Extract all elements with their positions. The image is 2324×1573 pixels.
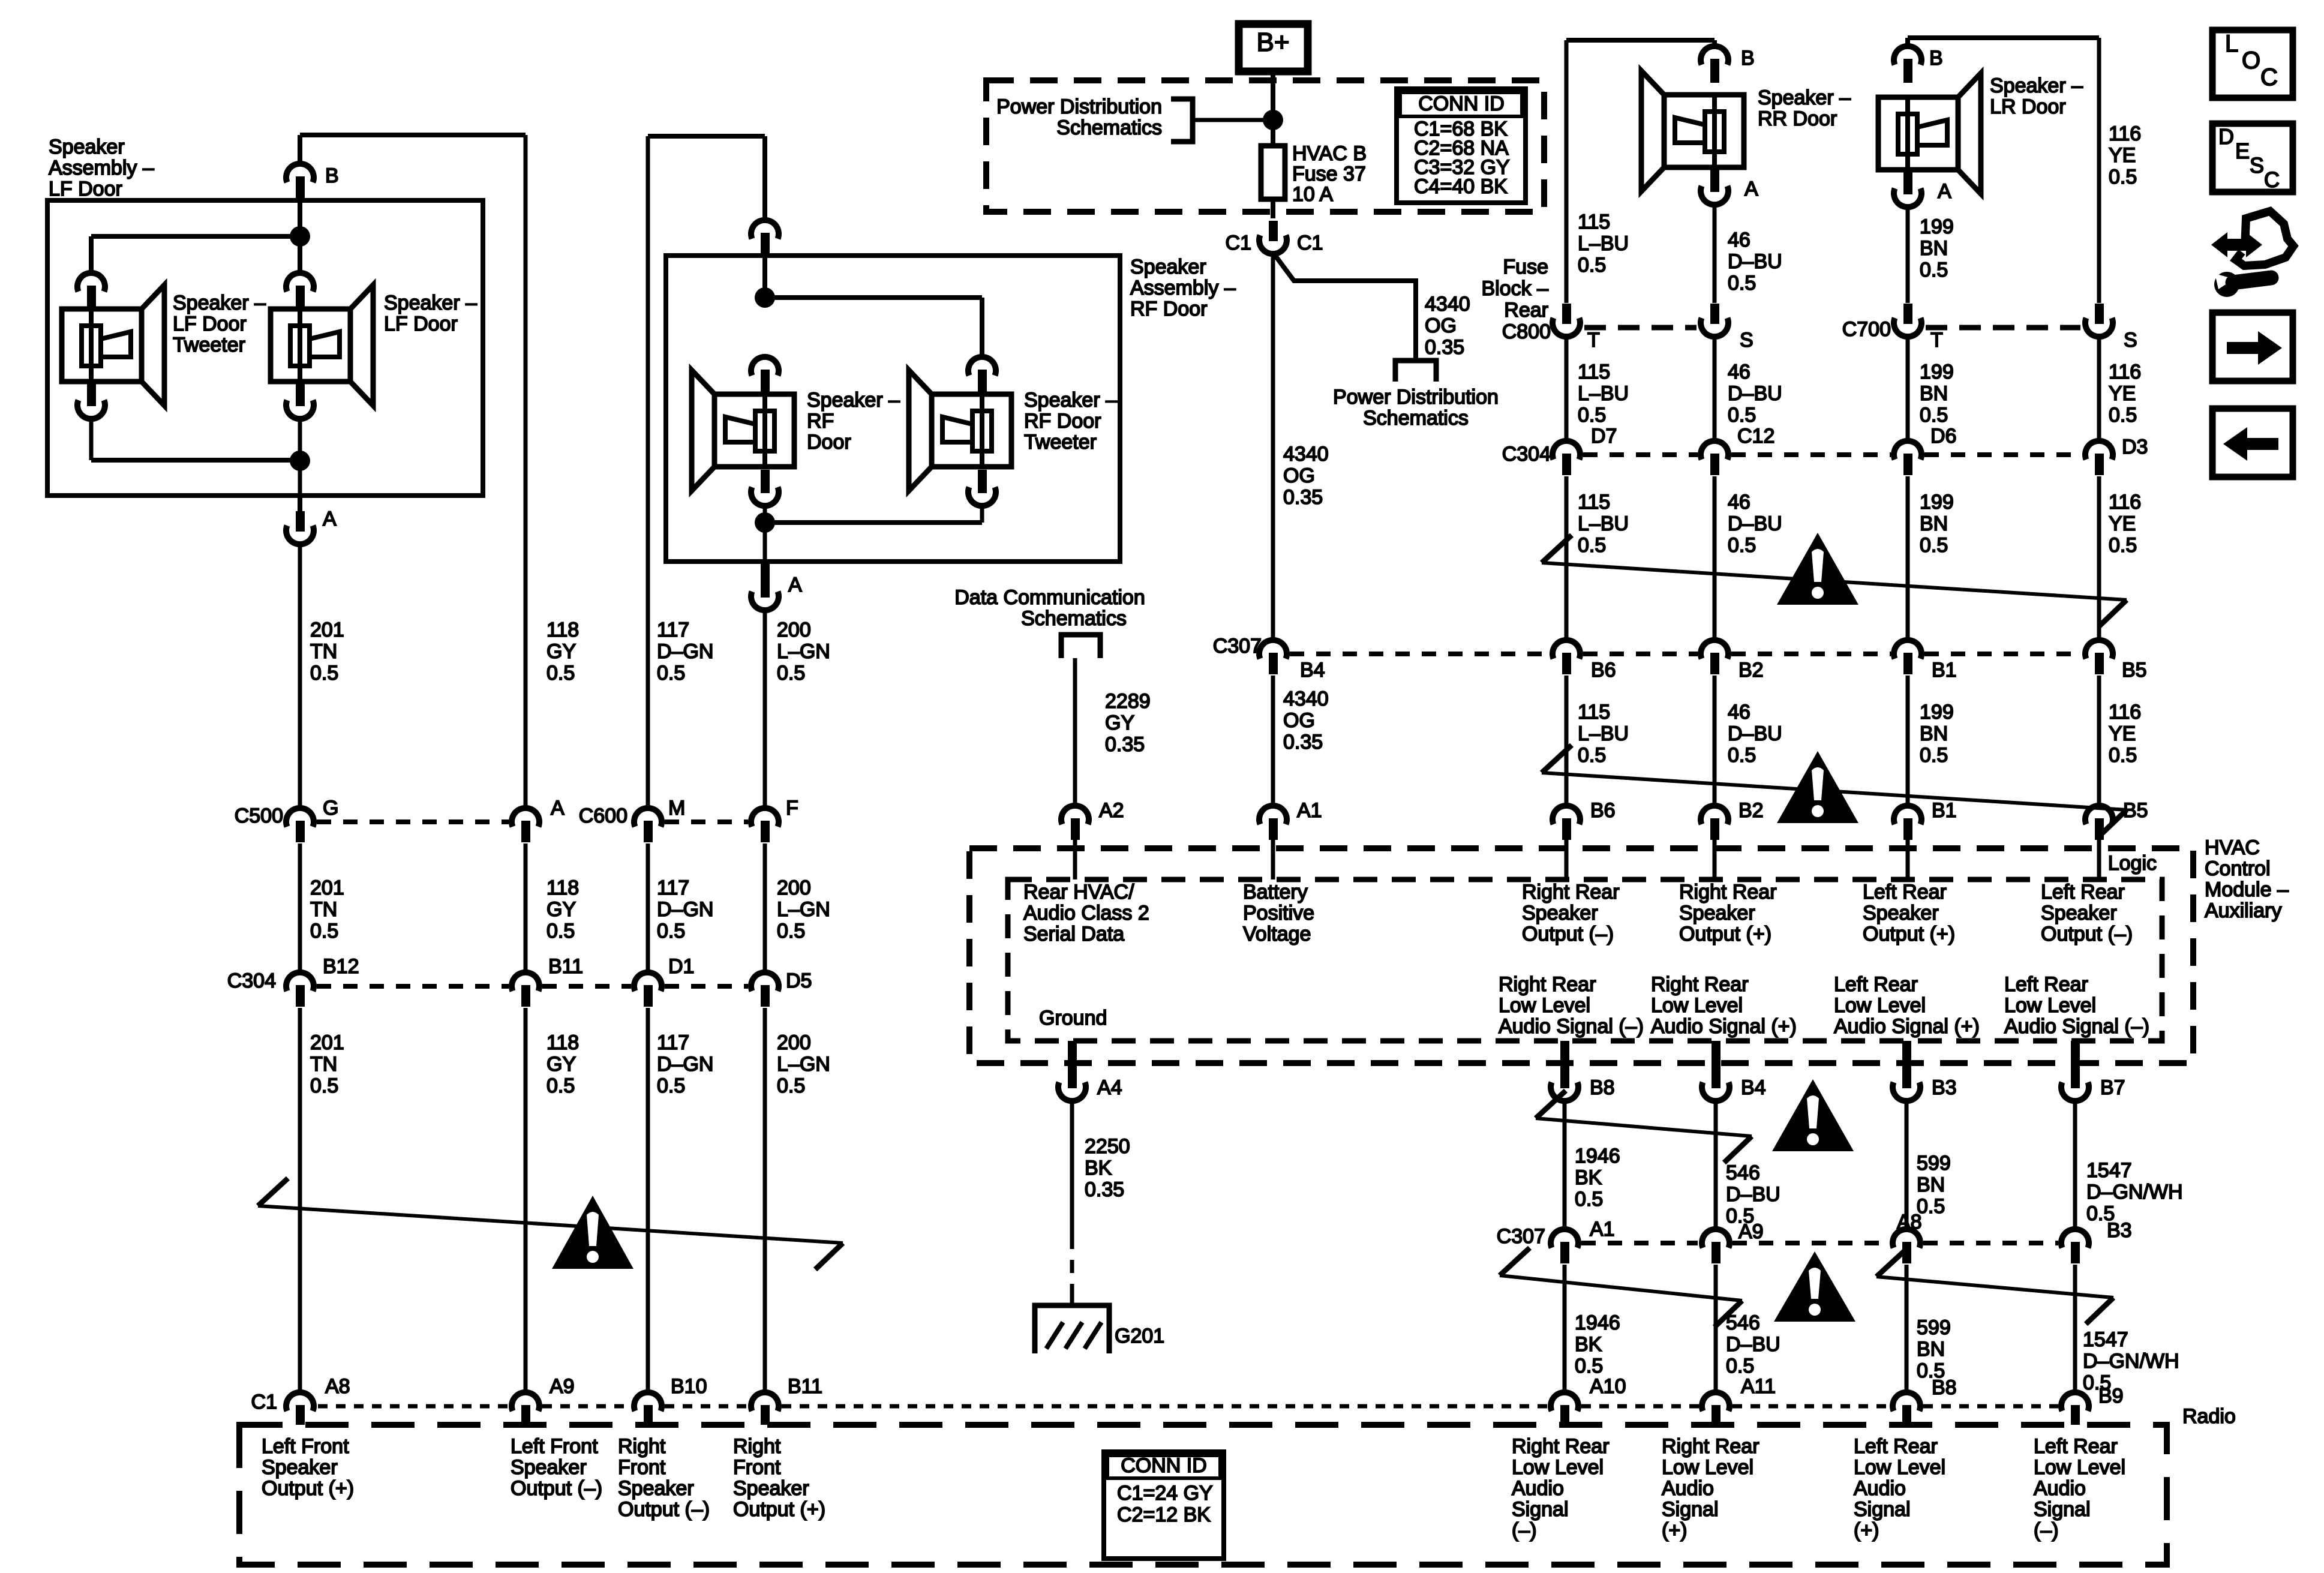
icon: back arrow box [2212, 409, 2293, 477]
wire junction to tweeter branch [91, 234, 300, 239]
warning triangle T4 [1772, 1079, 1854, 1151]
svg-text:Schematics: Schematics [1363, 407, 1469, 430]
svg-text:Voltage: Voltage [1243, 923, 1311, 945]
wire 118 GY middle [524, 843, 528, 972]
svg-text:115: 115 [1578, 361, 1610, 383]
svg-text:C307: C307 [1213, 635, 1262, 658]
wire 1946 BK upper [1563, 1101, 1567, 1227]
svg-text:BK: BK [1085, 1157, 1112, 1179]
svg-text:46: 46 [1728, 491, 1750, 514]
warning triangle T1 [552, 1196, 633, 1269]
C304 right dashed 3 [1924, 452, 2082, 457]
svg-text:B12: B12 [323, 955, 359, 978]
wire down to RF tweeter pin [980, 298, 984, 358]
svg-text:OG: OG [1425, 314, 1457, 337]
svg-text:(–): (–) [2034, 1519, 2059, 1542]
RF door speaker bottom pin [751, 470, 779, 506]
svg-text:Speaker: Speaker [1130, 256, 1206, 278]
connector pin B of RF assembly [751, 220, 779, 257]
svg-text:0.5: 0.5 [1728, 534, 1756, 557]
svg-text:2289: 2289 [1105, 690, 1151, 713]
svg-text:C1: C1 [251, 1391, 277, 1413]
wire 201 TN middle [298, 843, 302, 972]
svg-text:Power Distribution: Power Distribution [1333, 386, 1499, 409]
LF tweeter bottom pin [77, 383, 105, 419]
connector C307 pin A1 [1551, 1229, 1578, 1263]
wire to ground [1070, 1291, 1074, 1305]
wire top RF [648, 134, 765, 139]
svg-text:Assembly –: Assembly – [49, 157, 154, 179]
svg-text:L–BU: L–BU [1578, 512, 1629, 535]
svg-text:Front: Front [733, 1456, 781, 1479]
svg-text:0.5: 0.5 [777, 1074, 805, 1097]
wire 199 BN upper [1906, 207, 1910, 303]
svg-text:S: S [2250, 153, 2264, 178]
svg-text:Right: Right [733, 1435, 781, 1458]
svg-text:Fuse: Fuse [1503, 256, 1548, 278]
svg-text:118: 118 [547, 876, 579, 899]
C307 dashed 2 [1583, 652, 1698, 656]
svg-text:A: A [788, 574, 802, 596]
svg-text:201: 201 [310, 619, 344, 641]
svg-text:200: 200 [777, 876, 811, 899]
svg-text:BN: BN [1917, 1338, 1945, 1361]
speaker SPKR2 - LF Door symbol [271, 285, 373, 406]
wire inside LF assembly [298, 200, 302, 236]
svg-text:Output (–): Output (–) [511, 1477, 602, 1500]
svg-text:4340: 4340 [1425, 293, 1470, 316]
crossed-wires symbol Z5 [1876, 1249, 2113, 1324]
svg-text:Low Level: Low Level [1651, 994, 1743, 1017]
svg-text:Block –: Block – [1482, 277, 1549, 300]
svg-text:46: 46 [1728, 701, 1750, 724]
svg-text:Audio Signal (–): Audio Signal (–) [1499, 1015, 1644, 1038]
svg-text:B9: B9 [2098, 1385, 2124, 1407]
svg-text:C500: C500 [235, 804, 283, 827]
radio connector pin B9 [2061, 1392, 2089, 1425]
connector C304 pin D6 [1894, 441, 1921, 475]
connector C307 pin A9 [1702, 1229, 1730, 1263]
wire branch to power distribution (off-page) [1273, 253, 1416, 361]
wire 116 YE upper [2097, 38, 2101, 303]
svg-text:C307: C307 [1497, 1225, 1545, 1248]
radio connector pin A11 [1702, 1392, 1730, 1425]
wire top RR speaker [1566, 38, 1715, 43]
connector C307 pin B6 [1553, 640, 1580, 674]
wire to power distribution bracket [1193, 118, 1273, 122]
svg-text:B1: B1 [1932, 799, 1957, 822]
svg-text:D–GN: D–GN [657, 640, 713, 663]
svg-text:E: E [2235, 139, 2250, 163]
connector C304 pin D5 [751, 972, 779, 1007]
wire below C800/C700 [1906, 337, 1910, 441]
icon: DESC box [2212, 124, 2293, 192]
HVAC module bottom pin B7 [2071, 1041, 2080, 1076]
crossed-wires symbol Z4 [1536, 1091, 1752, 1163]
svg-text:599: 599 [1917, 1152, 1951, 1175]
svg-text:Signal: Signal [1512, 1498, 1569, 1521]
svg-text:117: 117 [657, 1031, 689, 1054]
connector C307 pin B5 [2085, 640, 2113, 674]
svg-text:A11: A11 [1741, 1375, 1776, 1398]
svg-text:0.5: 0.5 [1726, 1355, 1754, 1377]
svg-text:0.5: 0.5 [547, 920, 575, 942]
LF door speaker top pin [286, 273, 314, 310]
icon: diagnostic wrench/arrows [2211, 211, 2293, 297]
connector C700 pin T [1894, 304, 1921, 337]
svg-text:200: 200 [777, 619, 811, 641]
wire 200 L-GN lower [763, 1008, 767, 1392]
RF door speaker top pin [751, 357, 779, 394]
svg-text:T: T [1930, 329, 1943, 352]
Speaker Assembly - RF Door box [666, 256, 1120, 562]
radio C1/C2 dotted connector line [318, 1404, 509, 1409]
speaker SPKR1 - LF Door Tweeter symbol [62, 285, 164, 406]
wire 1547 D-GN/WH lower [2073, 1265, 2077, 1392]
svg-text:0.5: 0.5 [1575, 1188, 1603, 1211]
connector C500 pin G [286, 808, 314, 842]
svg-text:D–GN: D–GN [657, 898, 713, 921]
connector C304 pin D3 [2085, 441, 2113, 475]
pin wire into module [1906, 840, 1910, 879]
svg-text:B2: B2 [1739, 799, 1764, 822]
svg-text:B3: B3 [2107, 1219, 2132, 1242]
svg-text:0.5: 0.5 [2109, 404, 2137, 427]
svg-text:LF Door: LF Door [384, 313, 458, 335]
junction to power distribution reference [1263, 110, 1283, 130]
svg-text:LF Door: LF Door [173, 313, 247, 335]
wire 117 D-GN middle [646, 843, 650, 972]
svg-text:C1: C1 [1297, 232, 1323, 254]
connector C304 pin B12 [286, 972, 314, 1007]
svg-text:A1: A1 [1590, 1218, 1615, 1241]
svg-text:Signal: Signal [1854, 1498, 1911, 1521]
svg-text:Speaker: Speaker [1679, 902, 1755, 924]
svg-text:117: 117 [657, 619, 689, 641]
wire below C307 row1 [1565, 676, 1569, 806]
wire below C304 right [1906, 476, 1910, 640]
svg-text:0.5: 0.5 [1728, 744, 1756, 767]
svg-text:Tweeter: Tweeter [1024, 431, 1097, 454]
svg-text:C1: C1 [1226, 232, 1251, 254]
svg-text:Low Level: Low Level [1834, 994, 1926, 1017]
pin wire into module [1073, 840, 1077, 879]
svg-text:Speaker –: Speaker – [173, 292, 266, 314]
svg-text:Speaker: Speaker [1863, 902, 1939, 924]
crossed-wires symbol Z6 [1500, 1248, 1742, 1327]
svg-text:115: 115 [1578, 491, 1610, 514]
svg-text:Radio: Radio [2182, 1405, 2236, 1428]
HVAC module bottom pin A4 [1068, 1041, 1077, 1076]
svg-text:TN: TN [310, 640, 337, 663]
svg-text:B5: B5 [2123, 799, 2148, 822]
svg-text:0.5: 0.5 [2109, 744, 2137, 767]
wire down to tweeter pin [89, 236, 94, 273]
svg-text:1946: 1946 [1575, 1145, 1620, 1167]
wire tweeter return [91, 458, 300, 463]
svg-text:Audio: Audio [1512, 1477, 1564, 1500]
svg-text:Output (–): Output (–) [1522, 923, 1614, 945]
svg-text:Audio: Audio [1662, 1477, 1714, 1500]
svg-text:RF Door: RF Door [1130, 298, 1207, 320]
svg-text:Assembly –: Assembly – [1130, 277, 1236, 299]
svg-text:1547: 1547 [2083, 1328, 2128, 1351]
wire 2289 GY [1073, 658, 1077, 806]
svg-text:BK: BK [1575, 1166, 1602, 1189]
wire 546 D-BU upper [1714, 1101, 1718, 1227]
svg-text:Low Level: Low Level [1512, 1456, 1604, 1479]
svg-text:Data Communication: Data Communication [954, 586, 1145, 609]
connector C600 pin M [634, 808, 662, 842]
svg-text:Speaker –: Speaker – [1024, 389, 1117, 412]
svg-text:HVAC: HVAC [2205, 836, 2260, 859]
svg-text:A10: A10 [1590, 1375, 1626, 1398]
svg-text:Low Level: Low Level [2004, 994, 2096, 1017]
svg-text:0.5: 0.5 [2109, 534, 2137, 557]
wire below C800/C700 [2097, 337, 2101, 441]
wire 4340 OG lower [1271, 676, 1275, 806]
LR speaker pin B [1894, 46, 1921, 83]
svg-text:Right Rear: Right Rear [1662, 1435, 1759, 1458]
svg-text:Left Rear: Left Rear [1834, 973, 1918, 996]
svg-text:Speaker –: Speaker – [1990, 74, 2083, 97]
wire tweeter bottom to junction [89, 419, 94, 460]
svg-text:Left Rear: Left Rear [1863, 881, 1947, 903]
svg-text:RF: RF [807, 410, 834, 433]
svg-text:0.35: 0.35 [1105, 733, 1145, 756]
svg-text:B8: B8 [1932, 1376, 1957, 1399]
svg-text:D–BU: D–BU [1728, 250, 1782, 273]
svg-text:116: 116 [2109, 361, 2141, 383]
svg-text:D1: D1 [668, 955, 694, 978]
C307-2 dashed 1 [1581, 1241, 1698, 1245]
wire 115 L-BU from fuse block [1565, 40, 1569, 303]
connector C500 pin A [512, 808, 539, 842]
svg-text:B: B [325, 164, 339, 187]
svg-text:B8: B8 [1590, 1076, 1615, 1099]
svg-text:L–GN: L–GN [777, 1053, 830, 1076]
svg-text:C700: C700 [1842, 318, 1891, 341]
wire top LF (+) to (-) [300, 133, 526, 137]
svg-text:0.5: 0.5 [310, 662, 338, 685]
svg-text:Speaker –: Speaker – [807, 389, 900, 412]
wire junction to RF tweeter [765, 295, 982, 300]
connector C800 pin T [1553, 304, 1580, 337]
connector pin A of RF assembly [751, 563, 779, 610]
svg-text:(+): (+) [1854, 1519, 1879, 1542]
wire below C307 row1 [2097, 676, 2101, 806]
svg-text:YE: YE [2109, 722, 2136, 745]
junction RF return [755, 512, 775, 533]
connector C307 pin B2 [1701, 640, 1728, 674]
svg-text:YE: YE [2109, 382, 2136, 405]
wire 201 TN upper [298, 544, 302, 808]
svg-text:L–BU: L–BU [1578, 722, 1629, 745]
connector C304 pin B11 [512, 972, 539, 1007]
wire out of LF assembly box [298, 496, 302, 511]
speaker SPKR6 - LR Door symbol [1878, 73, 1981, 194]
svg-text:D3: D3 [2122, 436, 2148, 458]
svg-text:Audio Signal (–): Audio Signal (–) [2004, 1015, 2149, 1038]
pin wire into module [1271, 840, 1275, 879]
svg-text:C12: C12 [1737, 425, 1774, 448]
connector C307 pin B3 [2061, 1229, 2089, 1263]
radio connector pin B10 [634, 1392, 662, 1425]
wire 118 GY lower [524, 1008, 528, 1392]
LF tweeter top pin [77, 273, 105, 310]
svg-text:B6: B6 [1591, 659, 1616, 682]
svg-text:B10: B10 [671, 1375, 707, 1398]
svg-text:Output (–): Output (–) [2041, 923, 2133, 945]
svg-text:TN: TN [310, 1053, 337, 1076]
svg-text:0.5: 0.5 [1728, 272, 1756, 295]
svg-text:Speaker: Speaker [618, 1477, 694, 1500]
svg-text:D–GN/WH: D–GN/WH [2083, 1350, 2179, 1373]
connector C600 pin F [751, 808, 779, 842]
svg-text:GY: GY [1105, 712, 1134, 734]
svg-text:GY: GY [547, 1053, 576, 1076]
svg-text:A9: A9 [1739, 1220, 1764, 1243]
HVAC module bottom pin B8 [1560, 1041, 1569, 1076]
radio connector pin A9 [512, 1392, 539, 1425]
wire 117 D-GN lower [646, 1008, 650, 1392]
wire 1946 BK lower [1563, 1265, 1567, 1392]
svg-text:S: S [2124, 329, 2137, 352]
radio connector pin A8 [286, 1392, 314, 1425]
wire 200 L-GN from RF assembly [763, 610, 767, 808]
svg-text:Left Rear: Left Rear [2041, 881, 2125, 903]
pin wire into module [1713, 840, 1717, 879]
speaker SPKR5 - RR Door symbol [1641, 71, 1744, 191]
svg-text:A8: A8 [325, 1375, 350, 1398]
wire below C800/C700 [1565, 337, 1569, 441]
svg-text:C800: C800 [1502, 320, 1551, 343]
connector C1 (fuse block) [1259, 221, 1287, 254]
svg-text:C2=12 BK: C2=12 BK [1117, 1503, 1211, 1526]
HVAC module bottom pin B3 [1902, 1041, 1911, 1076]
svg-text:Speaker: Speaker [49, 136, 125, 158]
crossed-wires symbol Z1 [258, 1178, 843, 1269]
svg-text:200: 200 [777, 1031, 811, 1054]
svg-text:Speaker: Speaker [262, 1456, 338, 1479]
connector C304 pin C12 [1701, 441, 1728, 475]
HVAC module pin B1 [1894, 806, 1921, 840]
svg-text:Ground: Ground [1039, 1007, 1107, 1029]
svg-text:Battery: Battery [1243, 881, 1308, 903]
wire 599 BN lower [1905, 1265, 1909, 1392]
pin wire into module [1565, 840, 1569, 879]
svg-text:CONN ID: CONN ID [1418, 92, 1505, 115]
svg-text:0.5: 0.5 [310, 920, 338, 942]
connector C304 pin D1 [634, 972, 662, 1007]
svg-text:BN: BN [1920, 237, 1948, 260]
C500 connector dashed line [317, 819, 509, 824]
svg-text:Tweeter: Tweeter [173, 334, 245, 356]
svg-text:Output (+): Output (+) [1863, 923, 1955, 945]
svg-text:0.5: 0.5 [547, 662, 575, 685]
svg-text:Right Rear: Right Rear [1512, 1435, 1610, 1458]
svg-text:115: 115 [1578, 701, 1610, 724]
svg-text:0.5: 0.5 [777, 920, 805, 942]
junction RF split [755, 287, 775, 308]
svg-text:D–BU: D–BU [1726, 1183, 1780, 1206]
svg-text:Low Level: Low Level [1499, 994, 1590, 1017]
C304 dashed line left 2 [542, 984, 631, 989]
svg-text:YE: YE [2109, 512, 2136, 535]
svg-text:HVAC B: HVAC B [1292, 142, 1367, 165]
svg-text:L: L [2225, 31, 2238, 57]
HVAC module pin A2 [1061, 806, 1089, 840]
svg-text:Serial Data: Serial Data [1023, 923, 1124, 945]
C304 right dashed 1 [1583, 452, 1698, 457]
svg-text:D–GN/WH: D–GN/WH [2086, 1181, 2183, 1203]
wire 46 D-BU upper [1713, 205, 1717, 303]
wire RF speaker bottom [763, 506, 767, 562]
svg-text:(+): (+) [1662, 1519, 1688, 1542]
C304 right dashed 2 [1731, 452, 1891, 457]
svg-text:D–GN: D–GN [657, 1053, 713, 1076]
svg-text:Rear HVAC/: Rear HVAC/ [1023, 881, 1134, 903]
svg-text:BN: BN [1920, 722, 1948, 745]
svg-text:G: G [323, 797, 338, 819]
svg-text:199: 199 [1920, 361, 1954, 383]
svg-text:Output (+): Output (+) [1679, 923, 1771, 945]
svg-text:BN: BN [1920, 382, 1948, 405]
wire below C304 right [1565, 476, 1569, 640]
svg-text:Low Level: Low Level [2034, 1456, 2125, 1479]
svg-text:B4: B4 [1300, 659, 1325, 682]
off-page bracket (data communication) [1061, 635, 1100, 658]
radio connector pin B8 [1893, 1392, 1920, 1425]
svg-text:118: 118 [547, 619, 579, 641]
svg-text:CONN ID: CONN ID [1121, 1454, 1207, 1477]
icon: forward arrow box [2212, 313, 2293, 381]
warning triangle T5 [1774, 1251, 1855, 1322]
svg-text:D6: D6 [1930, 425, 1956, 448]
svg-text:Audio: Audio [2034, 1477, 2086, 1500]
svg-text:B1: B1 [1932, 659, 1957, 682]
svg-text:O: O [2242, 47, 2260, 74]
svg-text:A2: A2 [1099, 799, 1124, 822]
power node B+ box [1239, 24, 1308, 71]
off-page bracket (power distribution bottom) [1395, 361, 1436, 382]
wire top LR speaker [1908, 35, 2099, 40]
svg-text:GY: GY [547, 898, 576, 921]
connector C307 pin B1 [1894, 640, 1921, 674]
svg-text:Rear: Rear [1504, 299, 1548, 322]
svg-text:0.5: 0.5 [547, 1074, 575, 1097]
svg-text:Auxiliary: Auxiliary [2205, 899, 2281, 922]
svg-text:TN: TN [310, 898, 337, 921]
svg-text:199: 199 [1920, 491, 1954, 514]
svg-text:Right Rear: Right Rear [1679, 881, 1777, 903]
svg-text:46: 46 [1728, 229, 1750, 251]
svg-text:M: M [668, 797, 685, 819]
svg-text:B: B [1741, 47, 1755, 70]
svg-text:Power Distribution: Power Distribution [996, 95, 1162, 118]
svg-text:0.5: 0.5 [657, 920, 685, 942]
C307 dashed 4 [1924, 652, 2082, 656]
svg-text:Schematics: Schematics [1021, 607, 1127, 630]
svg-text:Output (+): Output (+) [262, 1477, 354, 1500]
svg-text:Left Front: Left Front [262, 1435, 349, 1458]
svg-text:LR Door: LR Door [1990, 95, 2066, 118]
wire 4340 OG to C307 [1271, 254, 1275, 640]
svg-text:B11: B11 [548, 955, 583, 978]
svg-text:0.5: 0.5 [1575, 1355, 1603, 1377]
wire fuse to C1 [1271, 200, 1275, 218]
svg-text:B3: B3 [1932, 1076, 1957, 1099]
